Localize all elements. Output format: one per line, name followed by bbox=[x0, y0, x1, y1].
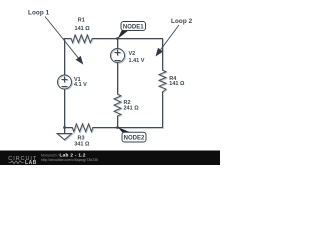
svg-text:LAB: LAB bbox=[25, 160, 37, 165]
wire middle V2 to R2 bbox=[117, 63, 119, 95]
wire bottom horizontal R3 to right corner bbox=[93, 127, 163, 129]
svg-text:http://circuitlab.com/c/6apxqp: http://circuitlab.com/c/6apxqp73b235 bbox=[41, 158, 98, 162]
resistor R4 zigzag bbox=[159, 70, 166, 92]
loop 1 arrowhead bbox=[76, 56, 84, 65]
resistor R2 zigzag bbox=[114, 94, 121, 116]
voltage source V1 bbox=[58, 75, 72, 89]
wire middle vertical top bbox=[117, 39, 119, 49]
footer logo zigzag bbox=[9, 161, 24, 164]
svg-text:141 Ω: 141 Ω bbox=[75, 26, 91, 32]
junction dot middle bottom NODE2 bbox=[116, 126, 119, 129]
node NODE2 box bbox=[122, 132, 146, 142]
svg-text:NODE1: NODE1 bbox=[123, 24, 144, 30]
loop 2 arrowhead bbox=[156, 48, 164, 57]
ground symbol bbox=[57, 134, 72, 140]
node NODE1 pointer bbox=[118, 30, 129, 39]
svg-text:241 Ω: 241 Ω bbox=[124, 105, 140, 111]
svg-text:Loop 1: Loop 1 bbox=[28, 9, 50, 16]
junction dot middle top NODE1 bbox=[116, 37, 119, 40]
wire right vertical lower bbox=[162, 92, 164, 128]
node NODE2 pointer bbox=[118, 127, 131, 133]
wire top horizontal R1 to right corner bbox=[92, 38, 162, 40]
resistor R1 zigzag bbox=[71, 35, 92, 43]
svg-text:Loop 2: Loop 2 bbox=[171, 18, 193, 25]
svg-text:4.1 V: 4.1 V bbox=[74, 82, 87, 88]
node NODE1 box bbox=[121, 22, 146, 31]
svg-text:341 Ω: 341 Ω bbox=[74, 141, 90, 147]
svg-text:1.41 V: 1.41 V bbox=[129, 58, 145, 64]
svg-text:NODE2: NODE2 bbox=[124, 136, 145, 142]
wire right vertical upper bbox=[162, 39, 164, 71]
svg-text:V2: V2 bbox=[129, 51, 136, 57]
wire bottom lead to R3 bbox=[65, 127, 73, 129]
wire left vertical lower bbox=[64, 89, 66, 128]
voltage source V2 bbox=[111, 49, 125, 63]
loop 1 arrow line bbox=[45, 17, 78, 58]
wire left vertical upper bbox=[64, 39, 66, 76]
svg-text:141 Ω: 141 Ω bbox=[169, 81, 185, 87]
wire middle R2 to bottom bbox=[117, 116, 119, 128]
svg-text:R1: R1 bbox=[78, 18, 85, 24]
wire top-left horizontal lead bbox=[64, 38, 71, 40]
resistor R3 zigzag bbox=[72, 124, 93, 132]
footer bar bbox=[0, 151, 220, 166]
loop 2 arrow line bbox=[161, 25, 179, 50]
junction dot left bottom bbox=[63, 126, 66, 129]
ground stub wire bbox=[64, 128, 66, 134]
